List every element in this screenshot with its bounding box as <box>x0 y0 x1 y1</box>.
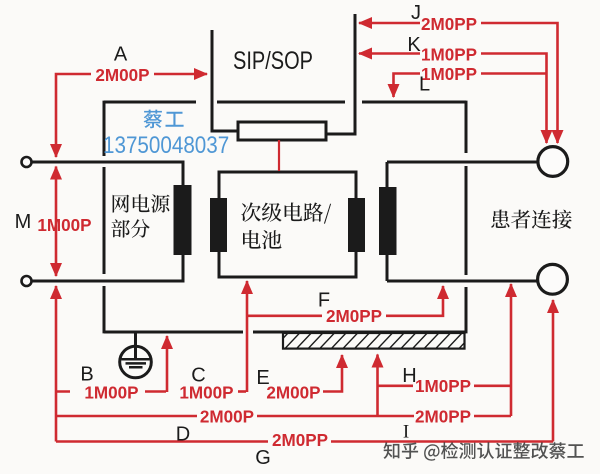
dim A corner+horizontal <box>56 74 91 157</box>
svg-text:1M00P: 1M00P <box>179 382 233 403</box>
enclosure box bottom edge <box>104 331 466 334</box>
svg-text:2M00P: 2M00P <box>266 382 320 403</box>
dim H/I arrow up to patient wire <box>510 284 513 416</box>
svg-text:F: F <box>318 290 330 312</box>
svg-text:2M00P: 2M00P <box>95 65 149 86</box>
protective earth symbol circle <box>120 346 152 378</box>
svg-text:H: H <box>402 365 416 387</box>
svg-text:J: J <box>411 2 421 24</box>
dim H row branch <box>378 384 512 387</box>
dim I row right segment <box>474 415 511 418</box>
dim E row segment <box>323 355 342 392</box>
dim C row segment <box>238 390 246 393</box>
text mains part line2 部分 <box>111 219 149 238</box>
dim F line from E spine <box>247 314 322 317</box>
svg-text:M: M <box>15 211 32 233</box>
dim C arrow up to enclosure bottom <box>166 336 169 392</box>
svg-text:E: E <box>256 367 269 389</box>
SIP/SOP left lead <box>212 30 238 131</box>
mains terminal node top <box>22 157 32 167</box>
enclosure box top edge <box>104 101 466 104</box>
svg-text:K: K <box>407 34 421 56</box>
svg-text:13750048037: 13750048037 <box>103 132 229 159</box>
svg-text:I: I <box>403 422 409 443</box>
secondary circuit box <box>219 172 356 277</box>
dim L right line <box>481 72 547 75</box>
enclosure box left edge <box>103 101 106 334</box>
mains terminal node bottom <box>22 276 32 286</box>
patient connection node bottom <box>538 264 568 294</box>
secondary left isolation bar <box>210 198 227 252</box>
dim E arrow up to secondary box <box>246 281 249 392</box>
svg-text:D: D <box>176 424 190 446</box>
svg-text:2M0PP: 2M0PP <box>326 306 382 327</box>
patient isolation bar <box>379 187 397 255</box>
patient circuit lead <box>387 162 538 281</box>
left spine vertical <box>55 286 58 442</box>
dim K arrow to SIP lead <box>359 52 420 55</box>
mains isolation bar (primary winding) <box>174 185 192 255</box>
dim L corner arrow down to enclosure top <box>394 74 421 98</box>
svg-text:B: B <box>80 364 93 386</box>
text secondary line2 电池 <box>243 230 282 249</box>
dim K line to patient node <box>481 54 547 144</box>
text secondary line1 次级电路/ <box>241 202 331 223</box>
svg-text:2M0PP: 2M0PP <box>272 430 328 451</box>
dim D row long line <box>56 415 414 418</box>
watermark zhihu 知乎@检测认证整改蔡工 <box>384 442 584 461</box>
secondary right isolation bar <box>348 198 365 252</box>
dim J arrow to SIP lead <box>359 22 420 25</box>
text mains part line1 网电源 <box>113 194 170 212</box>
ground stem wire <box>134 333 137 359</box>
dim F arrow to patient wire <box>386 286 443 316</box>
dim G arrow up to patient node <box>552 300 555 442</box>
dim M vertical with two arrows <box>55 167 58 277</box>
svg-text:2M0PP: 2M0PP <box>421 14 477 35</box>
mains circuit loop <box>32 162 183 281</box>
dim G row <box>56 440 553 443</box>
svg-text:2M0PP: 2M0PP <box>415 406 471 427</box>
text patient connection 患者连接 <box>491 210 571 229</box>
protective earth bars <box>122 359 150 367</box>
watermark name 蔡工 <box>144 110 184 129</box>
dim H arrow up to hatched enclosure <box>376 355 379 417</box>
dim J line to patient node <box>481 23 558 143</box>
svg-text:SIP/SOP: SIP/SOP <box>233 47 313 75</box>
dim A arrow to SIP lead <box>154 73 207 76</box>
SIP/SOP right lead <box>326 14 355 134</box>
svg-text:L: L <box>419 74 430 96</box>
svg-text:A: A <box>114 44 128 66</box>
svg-text:1M0PP: 1M0PP <box>415 376 471 397</box>
svg-text:1M00P: 1M00P <box>37 215 91 236</box>
wire red drop from coupling box to secondary <box>278 140 280 171</box>
enclosure hatched bar <box>283 333 465 349</box>
patient connection node top <box>538 147 568 177</box>
svg-text:G: G <box>255 447 271 469</box>
dim B row segments <box>56 390 166 393</box>
SIP/SOP coupling component box <box>238 122 326 140</box>
svg-text:1M0PP: 1M0PP <box>421 44 477 65</box>
svg-text:2M00P: 2M00P <box>200 406 254 427</box>
enclosure box right edge <box>465 101 468 334</box>
svg-text:C: C <box>191 365 205 387</box>
